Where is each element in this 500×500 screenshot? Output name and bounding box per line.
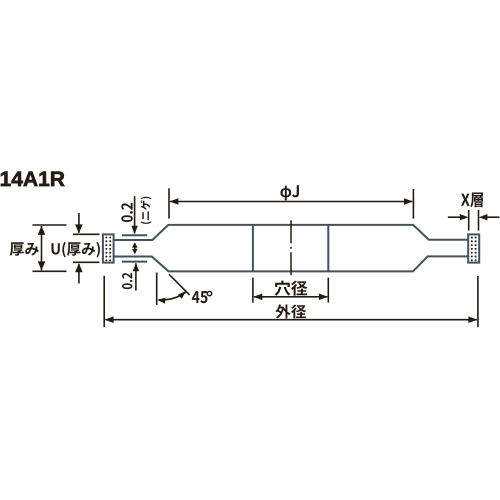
dimension gaikei (outer dia) extension lines (103, 276, 105, 328)
dimension X-layer arrows (448, 216, 460, 218)
neck thickness double arrow (134, 244, 136, 253)
dimension U arrows (78, 213, 80, 233)
dimension anakei (hole dia) extension lines (252, 278, 254, 303)
bore hole left edge (252, 225, 254, 272)
dimension 0.2 nige bottom arrow (135, 264, 137, 291)
label 45 deg (192, 291, 208, 303)
dimension atsumi arrow (41, 226, 43, 270)
label phiJ (280, 185, 298, 200)
dimension phiJ line (170, 201, 412, 203)
abrasive layer segment left (hatched) (103, 234, 114, 262)
label 0.2 top (rotated) (121, 203, 133, 222)
45 degree reference vertical line (156, 273, 158, 306)
dimension U extension lines (73, 233, 100, 235)
label gaikei (275, 304, 306, 318)
45 degree reference diagonal line (169, 274, 190, 295)
dimension 0.2 nige top arrow (134, 196, 136, 233)
relief reference line top (nige) (122, 234, 147, 236)
centerline of bore (dash-dot) (290, 220, 292, 276)
label X-layer (461, 193, 483, 208)
relief reference line bottom (nige) (122, 261, 147, 263)
label 0.2 bottom (rotated) (122, 273, 132, 289)
label U(atsumi) (51, 242, 99, 258)
label atsumi (10, 242, 39, 256)
dimension phiJ extension lines (168, 188, 170, 218)
label nige (rotated) (140, 197, 151, 224)
bore hole right edge (327, 225, 329, 272)
label anakei (275, 281, 308, 296)
dimension gaikei line (105, 319, 476, 321)
dimension anakei line (254, 296, 327, 298)
wheel core profile (slate outline) (114, 225, 469, 240)
45 degree arc with arrows (159, 292, 186, 300)
dimension X-layer ticks (468, 210, 470, 231)
dimension atsumi (overall thickness) extension lines (33, 224, 67, 226)
abrasive layer segment right (hatched) (468, 234, 479, 262)
label 14A1R (1, 172, 65, 186)
